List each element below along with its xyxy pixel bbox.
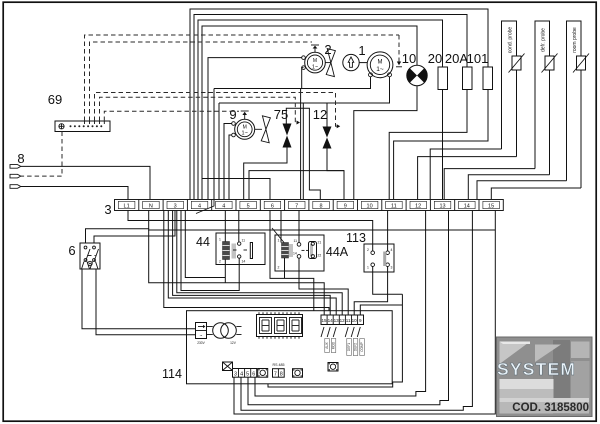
- wire 8c to terminal L1: [21, 187, 128, 200]
- ground arrow at motor M1 (dashed earth): [398, 35, 400, 62]
- relay 44A: [275, 235, 324, 271]
- svg-text:44: 44: [196, 235, 210, 249]
- svg-text:7: 7: [295, 203, 298, 209]
- wire motor M2 terminal 2: [302, 68, 304, 89]
- wire cond probe to strip: [430, 149, 501, 200]
- svg-text:SYSTEM: SYSTEM: [497, 359, 576, 379]
- motor M1: [367, 52, 393, 78]
- wire bus motors y=88.5: [214, 77, 371, 89]
- connector icon C: [328, 363, 338, 372]
- svg-text:N: N: [149, 203, 153, 209]
- svg-text:10: 10: [352, 318, 358, 323]
- wire bus L1 y=220.5: [128, 211, 373, 245]
- wire 113 bottom left to fan: [373, 267, 403, 295]
- SYSTEM 4 logo plate: [497, 337, 593, 417]
- svg-text:5: 5: [246, 372, 249, 378]
- display (3 digit 7-segment): [257, 315, 303, 337]
- svg-text:9: 9: [344, 203, 347, 209]
- svg-text:15: 15: [321, 318, 327, 323]
- dashed wire 69 to valve 75: [100, 97, 297, 122]
- svg-text:10: 10: [367, 203, 373, 209]
- wire motor M2 lower drop: [300, 89, 302, 200]
- probe input terminals 3456: [233, 369, 257, 378]
- probe loop defr: [535, 21, 550, 169]
- svg-text:11: 11: [294, 239, 298, 243]
- svg-text:2: 2: [367, 248, 369, 252]
- svg-text:3: 3: [174, 203, 177, 209]
- wire valve 75 bottom to terminal 5: [244, 148, 287, 200]
- svg-text:6: 6: [271, 203, 274, 209]
- wire fuse 101 to terminal 11: [394, 90, 488, 200]
- wire strip 13 riser to board t5: [248, 211, 449, 405]
- fuse 20A: [463, 67, 473, 90]
- ground motor M9: [244, 115, 246, 120]
- dashed wire 69 to motor M1 earth: [85, 35, 400, 121]
- wire bus y=170.6: [249, 171, 344, 200]
- wire strip 14 riser to board t4: [241, 211, 472, 411]
- probe loop cond: [502, 21, 517, 149]
- svg-text:DEF1: DEF1: [347, 343, 351, 351]
- valve 12 (solenoid): [323, 127, 332, 138]
- wire bus y=230: [149, 229, 496, 230]
- svg-text:3: 3: [104, 202, 111, 217]
- svg-text:12: 12: [415, 203, 421, 209]
- flow switch (arrow circle): [343, 54, 359, 70]
- svg-text:defr. probe: defr. probe: [541, 28, 547, 52]
- dashed wire 69 plus to connector 8: [21, 132, 62, 177]
- svg-text:L1: L1: [124, 203, 130, 209]
- wire switch 6 to board input a: [82, 269, 196, 329]
- svg-text:1~: 1~: [312, 65, 318, 71]
- connector icon A: [258, 369, 268, 378]
- wire loop to fuse 20: [198, 20, 443, 200]
- wire 113 bottom right to block 10: [354, 267, 387, 316]
- svg-text:4: 4: [222, 203, 225, 209]
- wire fuse 20A to terminal 11: [389, 90, 467, 200]
- svg-text:11: 11: [346, 318, 351, 323]
- svg-text:1~: 1~: [242, 131, 248, 137]
- svg-text:14: 14: [464, 203, 470, 209]
- svg-text:COMP: COMP: [360, 342, 364, 352]
- svg-text:3: 3: [391, 266, 393, 270]
- fan blade of motor 2: [326, 62, 331, 64]
- svg-text:114: 114: [162, 367, 182, 381]
- svg-text:room probe: room probe: [572, 27, 578, 53]
- svg-text:4: 4: [198, 203, 201, 209]
- svg-text:4: 4: [391, 248, 393, 252]
- svg-text:12V: 12V: [230, 341, 237, 345]
- svg-text:1: 1: [278, 239, 280, 243]
- buzzer icon: [223, 362, 233, 371]
- wire strip to block 12: [177, 211, 342, 316]
- svg-text:10: 10: [402, 51, 416, 66]
- wire strip to block 13: [168, 211, 336, 316]
- wire strip 15 riser to board t3: [234, 211, 495, 415]
- wire strip to board aux: [164, 211, 329, 311]
- svg-text:22: 22: [318, 254, 322, 258]
- motor M2: [305, 52, 326, 73]
- svg-text:DEF2: DEF2: [354, 343, 358, 351]
- valve 10 (lamp symbol): [407, 65, 427, 85]
- svg-text:12: 12: [340, 318, 346, 323]
- power input connector: [196, 323, 207, 339]
- svg-text:cond. probe: cond. probe: [508, 27, 514, 54]
- fuse 20: [438, 67, 448, 90]
- transformer: [207, 326, 213, 328]
- wire relay 44A contact to block 11: [299, 258, 348, 315]
- dashed wire 69 to valve 12: [95, 93, 337, 127]
- svg-text:3: 3: [234, 372, 237, 378]
- wire valve 12 bottom to terminal 9: [327, 149, 344, 200]
- valve 75 (solenoid): [283, 124, 292, 136]
- wire to terminal 6: [202, 179, 270, 200]
- svg-text:2: 2: [278, 266, 280, 270]
- wire valve 75 top loop: [286, 108, 320, 199]
- wire linkage diagonal 44A: [272, 228, 284, 243]
- svg-text:6: 6: [252, 372, 255, 378]
- controller board 114: [187, 311, 393, 384]
- svg-text:AUX: AUX: [325, 341, 329, 348]
- svg-text:8: 8: [280, 372, 283, 378]
- wire valve 12 top: [326, 103, 328, 127]
- relay 44: [216, 233, 265, 265]
- svg-text:13: 13: [439, 203, 445, 209]
- svg-text:11: 11: [242, 239, 246, 243]
- wire jog under terminal 4: [196, 200, 214, 214]
- svg-text:7: 7: [274, 372, 277, 378]
- svg-text:8: 8: [319, 203, 322, 209]
- relay 113: [364, 244, 394, 272]
- wire strip 12 riser to board t6: [255, 211, 426, 397]
- wire relay 44 contact down: [181, 211, 239, 291]
- svg-text:MOD: MOD: [332, 341, 336, 349]
- wire riser to block 9: [360, 305, 402, 315]
- svg-text:14: 14: [242, 260, 246, 264]
- wire loop to fuse 101: [190, 9, 488, 200]
- wire 113 riser to board icon: [268, 294, 402, 387]
- fan blade of motor 9: [255, 128, 262, 130]
- svg-text:9: 9: [359, 318, 362, 323]
- wire loop to valve 10: [202, 26, 417, 200]
- svg-text:14: 14: [328, 318, 334, 323]
- svg-text:69: 69: [48, 92, 62, 107]
- wire strip N to switch 6: [86, 211, 149, 244]
- wire defr probe to strip: [444, 169, 535, 200]
- svg-text:8: 8: [17, 151, 24, 166]
- svg-text:15: 15: [488, 203, 494, 209]
- thermistor room probe: [577, 56, 586, 70]
- tiny output labels: [325, 341, 364, 352]
- svg-text:20: 20: [428, 51, 442, 66]
- svg-text:1: 1: [358, 43, 365, 58]
- motor M9 (pump): [235, 119, 255, 139]
- svg-text:4: 4: [240, 372, 243, 378]
- svg-text:20A: 20A: [445, 51, 468, 66]
- dashed wire 69 to motor M2 earth: [90, 42, 313, 121]
- svg-text:113: 113: [346, 231, 366, 245]
- wire strip 3 to switch 6: [94, 211, 175, 244]
- plug terminal 8a: [10, 165, 21, 169]
- wire strip to relay 44 coil: [224, 211, 226, 242]
- wire bus motors y=103: [219, 77, 390, 103]
- wire strip to block 14: [173, 211, 331, 316]
- wire loop to fuse 20A: [194, 15, 467, 200]
- output terminal block 15..9: [321, 315, 364, 325]
- svg-text:13: 13: [334, 318, 340, 323]
- plug terminal 8c: [10, 185, 21, 189]
- svg-text:230V: 230V: [197, 341, 205, 345]
- svg-text:RS 485: RS 485: [273, 363, 285, 367]
- wire 8a to terminal N: [21, 166, 150, 199]
- svg-text:44A: 44A: [326, 245, 349, 259]
- svg-text:21: 21: [318, 241, 322, 245]
- thermistor defr. probe: [545, 56, 554, 70]
- wire motor M2 terminal 1: [208, 58, 302, 200]
- ground motor M2: [314, 48, 316, 52]
- thermistor cond. probe: [512, 56, 521, 70]
- connector 69: [55, 121, 110, 132]
- wire motor M9 terminal 2: [229, 135, 232, 200]
- svg-text:14: 14: [293, 252, 297, 256]
- wire motor M9 terminal 1: [224, 124, 232, 200]
- switch 6: [80, 243, 100, 269]
- relay switch marks under block: [321, 327, 360, 337]
- dashed wire 69 to motor M9 earth: [104, 111, 239, 121]
- wire strip to 113 right coil: [387, 211, 389, 251]
- wire strip rail: [185, 211, 225, 278]
- svg-text:~: ~: [200, 333, 203, 338]
- svg-text:9: 9: [229, 107, 236, 122]
- wire room probe to strip: [477, 181, 567, 200]
- svg-text:1~: 1~: [376, 66, 384, 73]
- wire switch 6 to board input b: [96, 269, 196, 335]
- wire strip to relay 44 contact: [238, 211, 240, 242]
- svg-text:M: M: [378, 60, 383, 66]
- wire strip to relay 44A coil: [280, 211, 282, 243]
- svg-text:1: 1: [219, 238, 221, 242]
- wire strip to relay 44A contact: [298, 211, 300, 243]
- fuse 101: [483, 67, 493, 90]
- wire valve 10 to terminal 9: [354, 86, 417, 200]
- wire relay 44A coil rail: [284, 258, 286, 278]
- svg-text:101: 101: [467, 51, 489, 66]
- svg-text:6: 6: [68, 243, 75, 258]
- svg-text:5: 5: [247, 203, 250, 209]
- wire fuse 20 to terminal 13: [442, 90, 444, 200]
- wire strip N rail to block 15: [149, 230, 325, 315]
- connector icon B: [293, 369, 303, 378]
- svg-text:11: 11: [391, 203, 397, 209]
- probe loop room: [567, 21, 582, 181]
- svg-text:12: 12: [313, 107, 327, 122]
- svg-text:1: 1: [367, 266, 369, 270]
- svg-text:M: M: [313, 58, 317, 64]
- svg-text:COD. 3185800: COD. 3185800: [512, 402, 589, 414]
- wire 113 left top: [372, 244, 374, 251]
- wire relay 44 coil down to N rail: [224, 260, 226, 283]
- wire motor M1 drop: [302, 103, 304, 200]
- plug terminal 8b: [10, 174, 21, 178]
- svg-text:2: 2: [219, 260, 221, 264]
